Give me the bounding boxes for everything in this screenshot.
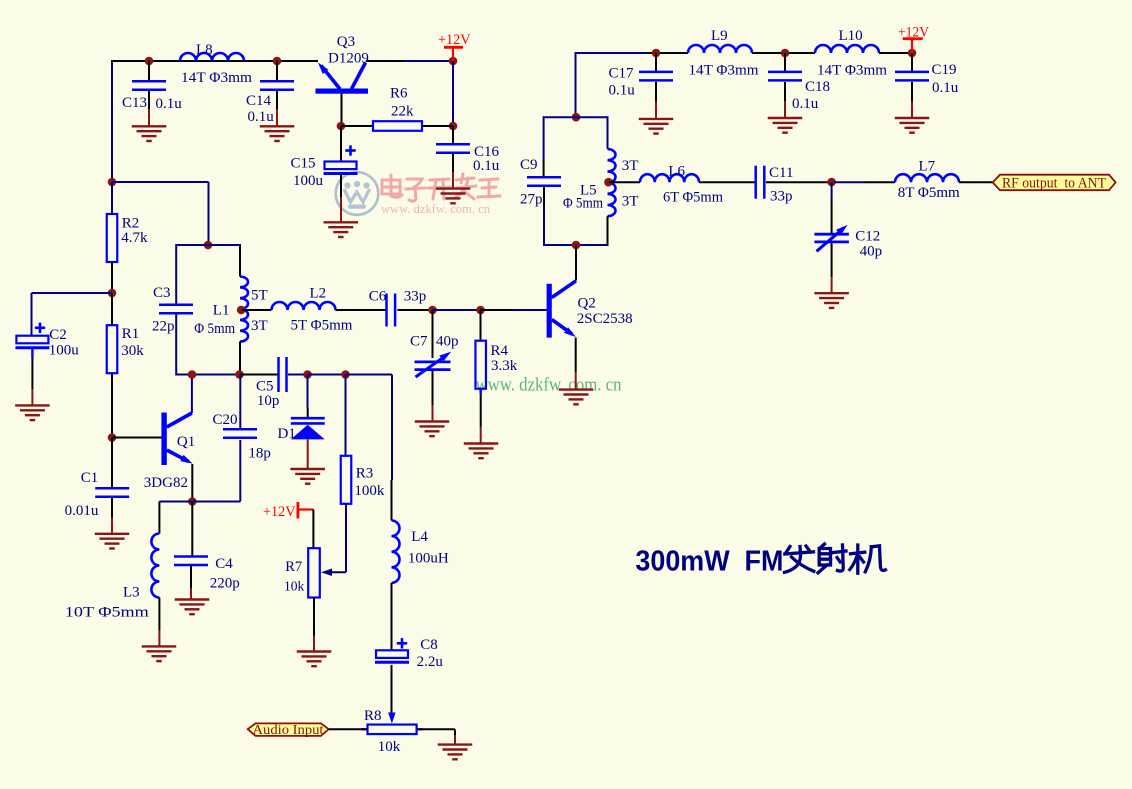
polarity + C15 bbox=[345, 145, 355, 155]
svg-text:R3: R3 bbox=[356, 466, 374, 482]
svg-text:33p: 33p bbox=[770, 189, 793, 205]
node tank2 top bbox=[204, 241, 213, 250]
svg-text:Φ 5mm: Φ 5mm bbox=[194, 321, 235, 337]
node L1 center tap bbox=[237, 306, 246, 315]
svg-text:L7: L7 bbox=[919, 159, 936, 175]
wire C7 ground stem bbox=[432, 405, 434, 421]
capacitor C2 bbox=[15, 336, 49, 348]
svg-text:+12V: +12V bbox=[438, 32, 471, 48]
svg-text:100k: 100k bbox=[354, 483, 385, 499]
svg-text:10k: 10k bbox=[378, 739, 401, 755]
wire R8 ground stem bbox=[454, 735, 456, 744]
wire +12V to R7 bbox=[312, 510, 314, 549]
capacitor C11 bbox=[756, 166, 765, 199]
svg-text:Q3: Q3 bbox=[337, 34, 355, 50]
wire C4 bottom bbox=[190, 566, 192, 589]
resistor R8 bbox=[368, 725, 417, 735]
wire L7 to port bbox=[959, 181, 993, 183]
wire C9 bottom bbox=[543, 186, 545, 206]
wire C9 top bbox=[543, 160, 545, 177]
wire rail to +12V node bbox=[403, 60, 453, 62]
svg-text:L1: L1 bbox=[213, 303, 230, 319]
wire C17 ground stem bbox=[655, 101, 657, 118]
wire R7 bottom bbox=[313, 598, 315, 636]
svg-text:220p: 220p bbox=[210, 576, 240, 592]
wire tank bottom rail bbox=[544, 244, 608, 246]
wire C18 top bbox=[784, 53, 786, 71]
node +12V top-left bbox=[449, 57, 458, 66]
node D1 top bbox=[303, 370, 312, 379]
wire tank right lower bbox=[607, 216, 609, 246]
wire C19 ground stem bbox=[911, 101, 913, 117]
svg-text:22p: 22p bbox=[152, 319, 175, 335]
wire C2 top bbox=[31, 293, 33, 336]
ground C12 bbox=[814, 293, 849, 308]
svg-text:Audio Input: Audio Input bbox=[253, 723, 324, 738]
wire Q1 base bbox=[112, 437, 161, 439]
node junction C13/rail bbox=[145, 57, 154, 66]
wiper arrow R8 bbox=[388, 713, 396, 724]
svg-text:C14: C14 bbox=[246, 93, 272, 109]
resistor R2 bbox=[107, 214, 118, 262]
svg-text:3T: 3T bbox=[622, 194, 639, 210]
svg-text:D1209: D1209 bbox=[328, 51, 369, 67]
svg-text:L6: L6 bbox=[668, 164, 685, 180]
wire R6 right to node bbox=[422, 125, 453, 127]
capacitor C9 bbox=[527, 177, 561, 186]
wire tank2 left upper bbox=[175, 244, 177, 304]
wire tap to L2 bbox=[242, 309, 272, 311]
pin R8 left stub bbox=[362, 728, 368, 730]
pin R8 right stub bbox=[417, 728, 423, 730]
capacitor C20 bbox=[223, 429, 257, 438]
polarity + C8 bbox=[397, 638, 407, 648]
wire R2 top bbox=[111, 182, 113, 214]
inductor L9 coil bbox=[688, 45, 752, 53]
svg-text:www. dzkfw. com. cn: www. dzkfw. com. cn bbox=[381, 201, 490, 216]
wire C13 bottom bbox=[148, 91, 150, 109]
wire C12 bottom bbox=[831, 243, 833, 277]
svg-text:18p: 18p bbox=[248, 446, 271, 462]
svg-text:10p: 10p bbox=[257, 393, 280, 409]
wire C6 to C7 node bbox=[398, 309, 433, 311]
wiper arrow R7 bbox=[321, 569, 346, 577]
wire tank2 right upper bbox=[239, 244, 241, 277]
wire D1 top navy bbox=[307, 375, 309, 409]
wire L4 top navy bbox=[391, 375, 393, 481]
wire C18 bottom bbox=[784, 82, 786, 101]
ground C19 bbox=[895, 118, 930, 133]
pin C2 bottom stub bbox=[31, 349, 33, 359]
node tank bottom bbox=[572, 241, 581, 250]
resistor R3 bbox=[341, 456, 352, 504]
inductor L1 coil bbox=[240, 277, 248, 342]
svg-text:22k: 22k bbox=[391, 104, 414, 120]
transistor Q2 bbox=[547, 281, 576, 338]
inductor L3 coil bbox=[151, 534, 159, 598]
svg-text:R1: R1 bbox=[122, 326, 140, 342]
svg-text:+12V: +12V bbox=[898, 25, 929, 41]
power +12V symbol mid bbox=[298, 502, 314, 519]
ground C13 bbox=[132, 126, 167, 141]
node C11/C12/L7 bbox=[827, 178, 836, 187]
title glyph 发 bbox=[785, 546, 814, 572]
inductor L5 coil bbox=[608, 149, 616, 216]
svg-text:100u: 100u bbox=[49, 343, 79, 359]
svg-text:L2: L2 bbox=[310, 286, 327, 302]
inductor L10 coil bbox=[815, 45, 879, 53]
wire C13 top bbox=[148, 61, 150, 81]
svg-text:C8: C8 bbox=[420, 637, 438, 653]
node L5 center tap bbox=[604, 178, 613, 187]
svg-text:100u: 100u bbox=[293, 173, 324, 189]
svg-text:0.1u: 0.1u bbox=[932, 80, 959, 96]
wire R3 node to L4 corner bbox=[346, 374, 393, 376]
wire +12V down to R6 node bbox=[452, 61, 454, 126]
svg-text:40p: 40p bbox=[436, 334, 459, 350]
wire R4 top bbox=[480, 310, 482, 341]
wire C7 node to R4 node bbox=[433, 309, 481, 311]
ground C7 bbox=[415, 422, 450, 437]
wire C14 bottom bbox=[276, 91, 278, 109]
wire node to Q2 base navy bbox=[513, 309, 547, 311]
svg-text:C7: C7 bbox=[410, 334, 428, 350]
svg-text:L8: L8 bbox=[196, 42, 213, 58]
wire L4 top black bbox=[391, 480, 393, 521]
node R6 right bbox=[449, 122, 458, 131]
title glyph 机 bbox=[850, 545, 886, 573]
polarity + C2 bbox=[35, 323, 45, 333]
wire R3 top bbox=[345, 375, 347, 456]
wire emitter node right bbox=[192, 501, 240, 503]
capacitor C17 bbox=[639, 72, 673, 81]
pin R4 bottom stub bbox=[480, 389, 482, 395]
watermark logo circle bbox=[336, 172, 379, 215]
svg-text:Φ 5mm: Φ 5mm bbox=[563, 196, 603, 212]
svg-text:C9: C9 bbox=[520, 157, 538, 173]
wire L6 to C11 bbox=[699, 181, 756, 183]
svg-text:C19: C19 bbox=[932, 62, 957, 78]
ground D1 bbox=[290, 469, 325, 484]
wire D1 top black bbox=[307, 408, 309, 417]
ground C16 bbox=[436, 189, 471, 204]
inductor L4 coil bbox=[392, 521, 400, 583]
capacitor C14 bbox=[260, 81, 294, 90]
wire R1 top bbox=[111, 293, 113, 325]
svg-text:3DG82: 3DG82 bbox=[144, 475, 188, 491]
svg-text:L9: L9 bbox=[711, 28, 728, 44]
wire port to R8 bbox=[329, 728, 368, 730]
svg-text:40p: 40p bbox=[860, 244, 883, 260]
wire C19 top bbox=[911, 53, 913, 71]
capacitor C8 bbox=[375, 650, 409, 662]
wire tank2 left lower bbox=[175, 314, 177, 376]
svg-text:L4: L4 bbox=[411, 529, 428, 545]
svg-text:C12: C12 bbox=[855, 229, 880, 245]
wire L2 to C6 bbox=[336, 309, 387, 311]
svg-text:3.3k: 3.3k bbox=[491, 358, 518, 374]
wire C1 top bbox=[111, 438, 113, 488]
wire R7 ground stem bbox=[313, 636, 315, 651]
wire C5 to D1 node bbox=[288, 374, 308, 376]
svg-text:R7: R7 bbox=[285, 559, 302, 575]
capacitor C19 bbox=[895, 72, 929, 81]
wire D1 node to R3 node bbox=[308, 374, 346, 376]
wire L3 ground stem bbox=[158, 630, 160, 646]
svg-text:C15: C15 bbox=[291, 156, 316, 172]
svg-text:14T Φ3mm: 14T Φ3mm bbox=[817, 63, 887, 79]
wire C16 bottom bbox=[452, 154, 454, 172]
wire L10 to +12V node bbox=[879, 52, 912, 54]
node C7/C6 bbox=[428, 306, 437, 315]
svg-text:www. dzkfw. com. cn: www. dzkfw. com. cn bbox=[476, 376, 622, 396]
svg-text:33p: 33p bbox=[404, 289, 427, 305]
svg-text:C20: C20 bbox=[213, 412, 238, 428]
power +12V symbol top-right bbox=[903, 39, 923, 53]
wire rail to L9 bbox=[649, 52, 689, 54]
wire tank2 right lower bbox=[239, 342, 241, 375]
node junction C14/rail bbox=[273, 57, 282, 66]
wire tank left upper bbox=[543, 116, 545, 160]
wire C14 top bbox=[276, 61, 278, 81]
wire Q3 collector to rail bbox=[366, 60, 403, 62]
wire C1 ground stem bbox=[111, 517, 113, 533]
svg-text:0.1u: 0.1u bbox=[792, 96, 819, 112]
wire tank right upper bbox=[607, 116, 609, 149]
wire Q1 emitter down bbox=[191, 464, 193, 502]
wire R1 bottom bbox=[111, 373, 113, 437]
svg-text:14T Φ3mm: 14T Φ3mm bbox=[181, 70, 252, 86]
wire Q1 collector up bbox=[191, 375, 193, 414]
wire C2 bottom bbox=[31, 359, 33, 390]
wire node to C2 bbox=[32, 292, 113, 294]
svg-text:5T Φ5mm: 5T Φ5mm bbox=[291, 318, 353, 334]
wire tank2 drop bbox=[208, 182, 210, 245]
watermark logo W emblem bbox=[344, 181, 370, 209]
wire L4 bottom bbox=[391, 583, 393, 650]
inductor L8 coil bbox=[180, 53, 244, 61]
wire C14 ground stem bbox=[276, 109, 278, 126]
svg-text:3T: 3T bbox=[251, 318, 268, 334]
wire tank2 bottom rail black bbox=[240, 374, 279, 376]
diode D1 varactor bbox=[291, 418, 325, 439]
svg-text:27p: 27p bbox=[520, 191, 543, 207]
wire node to L7 black bbox=[864, 181, 895, 183]
wire C7 bottom bbox=[432, 371, 434, 405]
wire node to Q2 base black bbox=[481, 309, 514, 311]
svg-text:C18: C18 bbox=[805, 79, 830, 95]
capacitor C13 bbox=[132, 81, 166, 90]
capacitor C4 bbox=[174, 557, 208, 566]
transistor Q1 bbox=[161, 413, 192, 466]
svg-text:C17: C17 bbox=[609, 66, 635, 82]
wire C15 bottom bbox=[340, 174, 342, 197]
svg-text:RF output to ANT: RF output to ANT bbox=[1002, 176, 1106, 192]
wire R2 bottom bbox=[111, 262, 113, 293]
node R3 top bbox=[341, 370, 350, 379]
svg-text:C11: C11 bbox=[769, 165, 793, 181]
wire tap to L6 bbox=[609, 181, 640, 183]
wire C19 bottom bbox=[911, 82, 913, 101]
svg-text:D1: D1 bbox=[278, 426, 296, 442]
wire Q3 base down bbox=[341, 94, 343, 127]
wire C13 ground stem bbox=[148, 109, 150, 126]
wire C2 ground stem bbox=[31, 389, 33, 405]
capacitor C16 bbox=[436, 144, 470, 153]
svg-text:L3: L3 bbox=[123, 585, 140, 601]
svg-text:R8: R8 bbox=[364, 708, 382, 724]
wire C4 top bbox=[191, 502, 193, 556]
wire tank bottom to Q2 collector bbox=[575, 245, 577, 281]
wire emitter node left bbox=[159, 501, 192, 503]
svg-text:14T Φ3mm: 14T Φ3mm bbox=[689, 63, 759, 79]
wire C12 top black bbox=[831, 199, 833, 234]
capacitor C3 bbox=[159, 305, 193, 314]
wire tank left lower bbox=[543, 206, 545, 247]
node Q1 base bbox=[108, 433, 117, 442]
svg-text:0.1u: 0.1u bbox=[248, 109, 275, 125]
wire C15 ground stem bbox=[340, 197, 342, 222]
svg-text:6T Φ5mm: 6T Φ5mm bbox=[663, 189, 723, 205]
node R4/Q2 base bbox=[476, 306, 485, 315]
svg-text:C1: C1 bbox=[81, 470, 99, 486]
node R1/R2/C2 bbox=[108, 289, 117, 298]
wire ground corner down bbox=[454, 729, 456, 735]
wire Q2 emitter ground stem bbox=[575, 372, 577, 388]
node Q1 collector bbox=[188, 370, 197, 379]
capacitor C12 variable bbox=[814, 225, 849, 252]
wire R3 bottom bbox=[345, 504, 347, 572]
capacitor C6 bbox=[387, 294, 396, 327]
svg-text:Q1: Q1 bbox=[177, 434, 195, 450]
svg-text:C2: C2 bbox=[49, 327, 67, 343]
svg-text:C3: C3 bbox=[153, 285, 171, 301]
capacitor C5 bbox=[279, 357, 287, 392]
ground R7 bbox=[297, 652, 332, 667]
wire top rail left vertical bbox=[111, 61, 113, 182]
wire C16 ground stem bbox=[452, 172, 454, 188]
ground C1 bbox=[95, 534, 130, 549]
wire R4 ground stem bbox=[480, 427, 482, 443]
wire C20 bottom bbox=[239, 440, 241, 502]
ground R4 bbox=[464, 444, 499, 459]
svg-text:Q2: Q2 bbox=[578, 295, 596, 311]
wire top-right rail navy bbox=[575, 52, 577, 117]
title glyph 射 bbox=[818, 544, 846, 573]
inductor L7 coil bbox=[895, 174, 959, 182]
ground C14 bbox=[260, 126, 295, 141]
wire Q2 emitter down bbox=[575, 338, 577, 373]
wire L3 bottom bbox=[158, 598, 160, 631]
wire L9 to C18 node bbox=[752, 52, 815, 54]
capacitor C15 bbox=[324, 162, 358, 174]
svg-text:0.1u: 0.1u bbox=[473, 158, 500, 174]
svg-text:300mW FM: 300mW FM bbox=[635, 545, 783, 577]
svg-text:10k: 10k bbox=[284, 579, 305, 594]
ground R8 bbox=[438, 745, 473, 760]
wire R8 to ground corner bbox=[417, 728, 455, 730]
svg-text:R6: R6 bbox=[390, 86, 408, 102]
svg-text:0.1u: 0.1u bbox=[156, 96, 183, 112]
wire C20 top bbox=[239, 375, 241, 429]
capacitor C18 bbox=[768, 72, 802, 81]
svg-text:L10: L10 bbox=[839, 28, 863, 44]
ground C2 bbox=[15, 405, 50, 420]
svg-text:4.7k: 4.7k bbox=[121, 230, 148, 246]
wire L3 top bbox=[158, 502, 160, 534]
wire C16 top bbox=[452, 126, 454, 144]
wire tank2 top rail bbox=[176, 244, 240, 246]
ground Q2 emitter bbox=[559, 390, 594, 405]
svg-text:5T: 5T bbox=[251, 288, 268, 304]
svg-text:C4: C4 bbox=[215, 556, 233, 572]
node C18/rail bbox=[781, 49, 790, 58]
node +12V top-right bbox=[908, 49, 917, 58]
resistor R6 bbox=[373, 121, 422, 131]
ground L3 bbox=[142, 646, 177, 661]
wire R4 bottom bbox=[480, 394, 482, 426]
ground C4 bbox=[175, 600, 210, 615]
wire tank top rail bbox=[544, 116, 608, 118]
node Q1 emitter bbox=[188, 497, 197, 506]
wire node to R6 left bbox=[341, 125, 373, 127]
wire D1 ground stem bbox=[307, 439, 309, 468]
svg-text:+12V: +12V bbox=[263, 504, 296, 520]
wire node to tank2 horizontal bbox=[112, 181, 209, 183]
wire C8 to R8 bbox=[391, 665, 393, 714]
wire C12 top navy bbox=[831, 182, 833, 199]
inductor L2 coil bbox=[272, 302, 336, 310]
capacitor C7 variable bbox=[415, 352, 452, 377]
ground C15 bbox=[324, 222, 359, 237]
svg-text:0.1u: 0.1u bbox=[609, 83, 636, 99]
wire C4 ground stem bbox=[190, 588, 192, 599]
wire L8 right to Q3 bbox=[245, 60, 318, 62]
resistor R4 bbox=[475, 341, 486, 389]
svg-text:2.2u: 2.2u bbox=[417, 654, 444, 670]
svg-text:0.01u: 0.01u bbox=[65, 503, 99, 519]
port RF output to ANT bbox=[993, 175, 1116, 191]
wire node to L7 navy bbox=[834, 181, 864, 183]
ground C18 bbox=[768, 118, 803, 133]
svg-text:3T: 3T bbox=[622, 158, 639, 174]
svg-text:100uH: 100uH bbox=[408, 551, 449, 567]
wire C7 top bbox=[432, 310, 434, 358]
node Q3 base/R6/C15 bbox=[337, 122, 346, 131]
svg-text:R4: R4 bbox=[491, 343, 509, 359]
svg-text:C6: C6 bbox=[369, 289, 387, 305]
wire C11 to node bbox=[766, 181, 832, 183]
svg-text:2SC2538: 2SC2538 bbox=[577, 311, 633, 327]
svg-text:8T Φ5mm: 8T Φ5mm bbox=[898, 185, 960, 201]
node tank top bbox=[572, 113, 581, 122]
wire top rail horizontal bbox=[111, 60, 318, 62]
capacitor C1 bbox=[95, 488, 129, 497]
watermark text 电子开发王 bbox=[382, 174, 500, 201]
power +12V symbol top-left bbox=[444, 47, 463, 61]
wire C12 ground stem bbox=[831, 277, 833, 292]
node C20 top bbox=[235, 370, 244, 379]
svg-text:30k: 30k bbox=[121, 343, 144, 359]
resistor R1 bbox=[107, 325, 118, 373]
port Audio Input bbox=[248, 723, 329, 736]
wire tank2 bottom rail navy bbox=[176, 374, 240, 376]
resistor R7 bbox=[308, 548, 320, 597]
wire C15 top bbox=[340, 126, 342, 162]
wire top-right rail horizontal navy bbox=[576, 52, 649, 54]
wire C17 bottom bbox=[655, 82, 657, 101]
transistor Q3 bbox=[316, 63, 369, 94]
